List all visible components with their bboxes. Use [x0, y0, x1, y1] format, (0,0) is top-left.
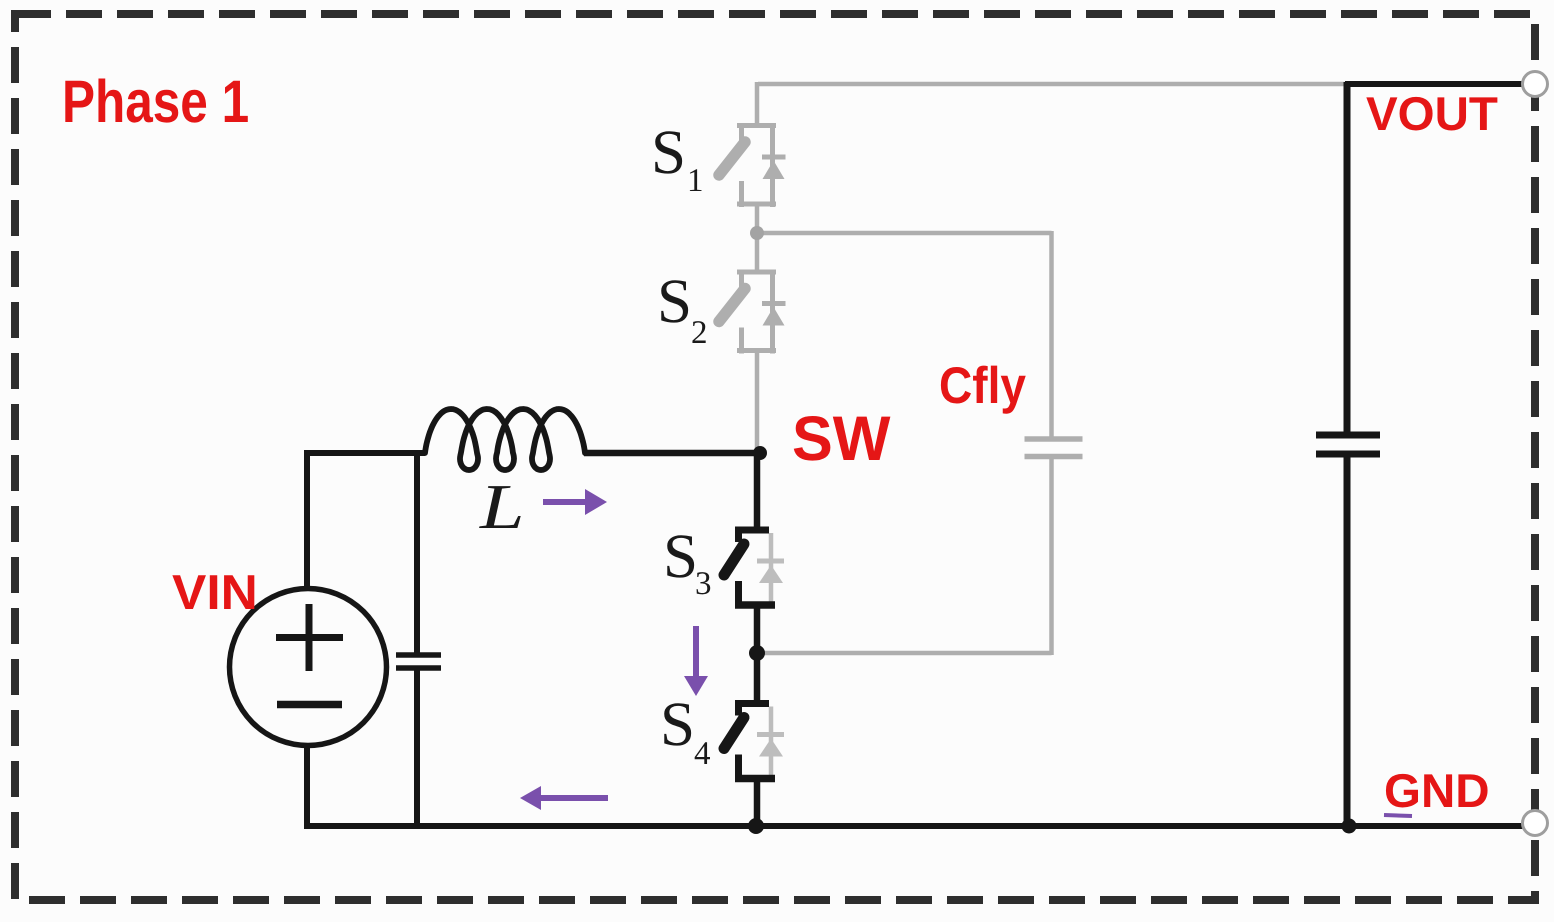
svg-text:S: S: [657, 266, 692, 336]
svg-text:2: 2: [691, 315, 708, 351]
svg-text:Cfly: Cfly: [939, 356, 1026, 414]
svg-text:GND: GND: [1384, 765, 1490, 818]
svg-text:SW: SW: [792, 404, 891, 474]
svg-text:L: L: [479, 471, 525, 542]
svg-text:VOUT: VOUT: [1366, 88, 1498, 141]
svg-text:S: S: [660, 689, 695, 759]
svg-text:Phase 1: Phase 1: [62, 68, 249, 135]
svg-text:S: S: [651, 117, 686, 187]
svg-text:VIN: VIN: [172, 566, 258, 620]
svg-text:1: 1: [687, 163, 704, 199]
svg-text:3: 3: [695, 566, 712, 602]
svg-text:4: 4: [694, 736, 711, 772]
svg-text:S: S: [663, 521, 698, 591]
